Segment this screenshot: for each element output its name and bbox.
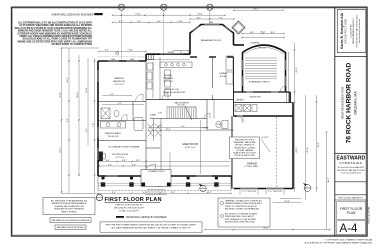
bottom-center right note box with warnings [218,198,270,227]
drawing title: FIRST FLOOR PLAN [96,194,161,203]
svg-text:ALL STAIR DIMENSIONS IN FIELD: ALL STAIR DIMENSIONS IN FIELD ALL RISERS… [111,226,191,229]
svg-text:7'-10": 7'-10" [127,50,133,52]
bottom-left note boxes [43,198,95,230]
svg-text:WEST HARWICH MA 02671: WEST HARWICH MA 02671 [352,17,355,43]
svg-text:15'-0": 15'-0" [197,13,203,15]
svg-text:COVERED PORCH: COVERED PORCH [148,171,165,173]
svg-text:16' CLG: 16' CLG [259,48,266,50]
EXTERIOR WALLS [98,25,293,189]
svg-text:3: 3 [203,187,204,189]
svg-text:ORLEANS, MA: ORLEANS, MA [354,91,358,115]
top-left notes paragraph [15,22,93,47]
svg-text:DINING: DINING [219,73,227,75]
svg-text:HELP THE FIRST THREE RISERS DO: HELP THE FIRST THREE RISERS DOWN FROM SE… [106,224,197,227]
svg-text:KITCHEN: KITCHEN [163,78,173,80]
svg-text:STATE BUILDING CODE LATEST: STATE BUILDING CODE LATEST [225,215,255,218]
plot stamp vertical text right of title block [369,206,371,224]
svg-text:e-mail eastward@c4.net: e-mail eastward@c4.net [341,171,362,174]
svg-text:9'-5": 9'-5" [112,192,116,194]
svg-text:SMOKE AND CO DETECTORS PER COD: SMOKE AND CO DETECTORS PER CODE VERIFY A… [18,40,93,43]
svg-text:TOTAL 3 331 SQ FT: TOTAL 3 331 SQ FT [119,210,140,213]
garage note box [230,137,260,159]
kitchen top wall [145,54,147,61]
svg-text:21'-4": 21'-4" [60,147,62,153]
porch railings [98,182,231,184]
svg-text:GLAZING SEE SCHEDULE FOR: GLAZING SEE SCHEDULE FOR [54,205,84,208]
wall from nook to porch [234,44,245,46]
svg-text:6'-8": 6'-8" [157,21,161,23]
top dims [234,9,283,11]
dim text scatter [60,8,320,229]
svg-text:NO CHANGE IN WORK THIS AREA: NO CHANGE IN WORK THIS AREA [109,145,140,148]
date row [335,195,367,200]
svg-text:IN FIELD PRIOR TO CONSTRUCTION: IN FIELD PRIOR TO CONSTRUCTION [52,44,93,46]
chimney diamond [232,21,245,34]
svg-text:44'-0": 44'-0" [60,92,62,98]
svg-text:12'-0": 12'-0" [86,87,88,93]
svg-text:PRIOR TO CONSTRUCTION NOTIFY: PRIOR TO CONSTRUCTION NOTIFY [225,206,258,208]
svg-text:PH 508 430 0277 FAX 508 430 2: PH 508 430 0277 FAX 508 430 2075 [355,14,358,48]
door swings [121,86,286,176]
svg-text:24'-6": 24'-6" [263,228,269,230]
svg-text:7'-6": 7'-6" [93,123,95,127]
svg-text:6'-0": 6'-0" [108,164,112,166]
svg-text:FIRST FLOOR 2146 SQ FT: FIRST FLOOR 2146 SQ FT [116,205,144,207]
svg-text:FILE 1/21/05 KBK REV 2: FILE 1/21/05 KBK REV 2 [339,197,364,199]
kitchen window bay [147,54,154,59]
svg-text:8'-2": 8'-2" [67,118,69,122]
svg-text:GWB AT ALL WALLS AND: GWB AT ALL WALLS AND [233,141,256,144]
top-left shear wall legend [51,13,102,16]
svg-text:LAUNDRY: LAUNDRY [236,99,245,102]
svg-text:14'-6": 14'-6" [67,77,69,83]
svg-text:SLAB SLOPE TO DOORS: SLAB SLOPE TO DOORS [233,152,256,155]
svg-text:EXTERIOR DOORS AND WINDOWS BY: EXTERIOR DOORS AND WINDOWS BY ANDERSEN S… [18,32,93,35]
svg-text:9 FT CLG: 9 FT CLG [115,84,124,86]
svg-text:SIZES AND ROUGH OPENINGS: SIZES AND ROUGH OPENINGS [54,208,84,211]
dimension ticks [61,9,331,230]
laundry fixtures [235,105,277,189]
EASTWARD COMPANIES box [335,154,367,182]
bottom dims [205,229,330,231]
grid drop lines [122,10,210,61]
svg-text:8'-0": 8'-0" [271,32,275,34]
svg-text:4" CONC SLAB: 4" CONC SLAB [244,165,258,168]
svg-text:ARCHITECT OF ANY DISCREPANCIES: ARCHITECT OF ANY DISCREPANCIES [225,208,260,211]
dimension chains [62,10,331,229]
svg-text:25'-8": 25'-8" [307,147,309,153]
svg-text:9'-5": 9'-5" [171,192,175,194]
svg-text:23'-4": 23'-4" [296,147,298,153]
svg-text:SCREENS: SCREENS [251,43,260,45]
svg-text:SITTING ROOM: SITTING ROOM [112,154,128,156]
svg-text:EDITION AND ALL LOCAL BYLAWS: EDITION AND ALL LOCAL BYLAWS [225,218,257,221]
garage [234,115,294,117]
svg-text:SHEAR WALL DESIGN BY ENGINEER: SHEAR WALL DESIGN BY ENGINEER [51,13,93,16]
porch arc top [243,45,286,53]
svg-text:© COPYRIGHT 2005 / KAREN B.: © COPYRIGHT 2005 / KAREN B. KEMPTON AIA [324,239,373,242]
svg-text:UP 14 R: UP 14 R [177,105,185,107]
svg-text:SMOKE DETECTORS PER CODE: SMOKE DETECTORS PER CODE [225,222,255,224]
svg-text:16'-0": 16'-0" [260,32,266,34]
bath fixtures [101,108,229,131]
svg-text:ISLAND: ISLAND [164,74,172,77]
master top wall with windows [98,60,146,62]
svg-text:76 ROCK HARBOR ROAD: 76 ROCK HARBOR ROAD [346,62,353,143]
svg-text:6'-4": 6'-4" [86,128,88,132]
roof overhang dashed [98,56,146,58]
porch dim line [62,193,232,195]
svg-text:FOYER: FOYER [202,128,209,130]
svg-text:A VIOLATION OF COPYRIGHT LAW.: A VIOLATION OF COPYRIGHT LAW. KAREN B KE… [305,241,373,244]
svg-text:SEE SHEET A-10 FOR DETAILS: SEE SHEET A-10 FOR DETAILS [57,226,86,229]
garage door edge ticks [240,190,284,195]
svg-text:6'-1": 6'-1" [197,17,201,19]
svg-text:STAIR: STAIR [150,114,156,117]
INTERIOR WALLS [98,57,234,176]
svg-text:8'-2": 8'-2" [105,50,109,52]
svg-text:4'-6": 4'-6" [106,160,110,162]
svg-text:ALL WINDOWS TO BE ANDERSEN 400: ALL WINDOWS TO BE ANDERSEN 400 [51,200,88,203]
svg-text:5'-10": 5'-10" [177,21,183,23]
svg-text:DOOR AT GARAGE: DOOR AT GARAGE [236,149,254,152]
svg-text:9' x 7' OH DOOR: 9' x 7' OH DOOR [268,191,282,193]
svg-text:9 FT CLG: 9 FT CLG [116,157,125,159]
mudroom band [234,91,291,93]
right dims [294,43,296,192]
left dims [61,48,63,193]
title block divider [334,7,336,236]
svg-text:1/2 PLYWOOD SHEATHING AND CEDA: 1/2 PLYWOOD SHEATHING AND CEDAR SHINGLES… [19,24,92,27]
project name block [335,56,367,58]
svg-text:3'-8": 3'-8" [122,160,126,162]
svg-text:3'-1": 3'-1" [118,103,122,105]
svg-text:GREAT ROOM: GREAT ROOM [182,143,198,146]
svg-text:38'-2": 38'-2" [328,177,330,183]
porch hatch (screened porch decking) [245,58,277,79]
svg-text:PITCH 1/8 PER FT MIN: PITCH 1/8 PER FT MIN [234,155,255,157]
svg-text:2: 2 [307,186,308,188]
bottom exterior wall [98,175,232,177]
svg-text:COMPANIES: COMPANIES [339,161,362,165]
svg-text:SERIES WITH HIGH PERFORMANCE: SERIES WITH HIGH PERFORMANCE [52,202,87,205]
svg-text:MASTER: MASTER [114,77,124,80]
svg-text:PDR: PDR [217,124,222,126]
svg-text:TILE FLOOR: TILE FLOOR [107,136,119,138]
svg-text:4'-1 1/2": 4'-1 1/2" [262,137,269,139]
sheet number box: A-4 [337,221,366,235]
svg-text:WOOD FLOOR: WOOD FLOOR [165,89,179,91]
fireplace [99,152,103,162]
svg-text:508 255 1117 FAX 508 255 924: 508 255 1117 FAX 508 255 9243 [337,169,364,172]
room labels [105,39,269,173]
svg-text:A-4: A-4 [340,223,359,235]
svg-text:PLOT 1/21/05 KBK: PLOT 1/21/05 KBK [369,206,371,224]
svg-text:20'-0": 20'-0" [77,92,79,98]
porch side walls [242,52,244,92]
wide bottom note box [100,222,202,232]
svg-text:ARCHITECTURE: ARCHITECTURE [344,18,348,43]
bottom legend shear wall [116,216,167,219]
svg-text:3'-6": 3'-6" [136,160,140,162]
svg-text:24'-2": 24'-2" [253,8,259,10]
grid bubbles on top frame [118,4,212,10]
svg-text:PLAN: PLAN [347,211,356,215]
svg-text:ROOM: ROOM [220,76,227,78]
svg-text:16 FT CLG: 16 FT CLG [185,147,195,149]
svg-text:6'-2": 6'-2" [119,21,123,23]
svg-text:17'-8": 17'-8" [135,13,141,15]
stair treads [167,106,193,120]
svg-text:VERIFY IN FIELD: VERIFY IN FIELD [61,211,78,213]
svg-text:7'-4": 7'-4" [219,17,223,19]
nook opening jambs [190,56,234,58]
second marker at porch left [199,184,207,192]
svg-text:BEDROOM: BEDROOM [113,81,124,83]
svg-text:12'-6": 12'-6" [165,129,170,131]
kitchen counters / fixtures [147,51,233,98]
svg-text:5'-9": 5'-9" [132,164,136,166]
left exterior wall [97,61,99,176]
porch edge [98,190,231,192]
svg-text:SEE SHEET A-9 FOR WINDOW SCHED: SEE SHEET A-9 FOR WINDOW SCHEDULE [51,219,90,222]
svg-text:ALL WORK TO CONFORM TO MASS: ALL WORK TO CONFORM TO MASS [225,213,258,216]
svg-text:5'-6": 5'-6" [137,21,141,23]
svg-text:GREAT ROOM BEYOND: GREAT ROOM BEYOND [163,91,186,94]
svg-text:9'-5": 9'-5" [143,192,147,194]
svg-text:GENERAL CONTRACTOR TO VERIFY A: GENERAL CONTRACTOR TO VERIFY ALL [225,200,262,203]
svg-text:SOLID BLOCKING AT ALL POINT LO: SOLID BLOCKING AT ALL POINT LOADS TO FOU… [23,38,93,41]
svg-text:14'-2": 14'-2" [206,192,211,194]
svg-text:ALL EXTERIOR WALLS TO BE 2x6 C: ALL EXTERIOR WALLS TO BE 2x6 CONSTRUCTIO… [18,22,92,25]
mudroom steps [287,93,291,103]
svg-text:30 Cove Rd Orleans MA 02653: 30 Cove Rd Orleans MA 02653 [338,166,364,169]
svg-text:29'-0": 29'-0" [318,142,320,148]
svg-text:9' x 7' OH DOOR: 9' x 7' OH DOOR [242,191,256,193]
garage diagonal leader [261,139,270,152]
sheet title box: FIRST FLOOR PLAN [337,202,366,220]
svg-text:5'-0": 5'-0" [110,94,114,96]
architect info box [337,10,366,53]
svg-text:SECOND FLOOR 1185 SQ FT: SECOND FLOOR 1185 SQ FT [114,208,145,210]
svg-text:MASTER BATH: MASTER BATH [105,132,121,135]
svg-text:7'-4": 7'-4" [181,126,185,128]
elevation marker circle w/ flag [303,183,311,191]
svg-text:kkemptonaia@comcast.net: kkemptonaia@comcast.net [358,18,361,43]
svg-text:WALLS TO BE 2x4 STUDS AT 16 OC: WALLS TO BE 2x4 STUDS AT 16 OC UNLESS NO… [15,27,93,30]
right outer dim line [288,52,327,230]
svg-text:SHEAR WALL DESIGN BY ENGINEER: SHEAR WALL DESIGN BY ENGINEER [126,216,167,219]
svg-text:NEW RESIDENCE FOR: NEW RESIDENCE FOR [341,86,345,119]
svg-text:WINDOW AND DOOR HEADERS TO BE: WINDOW AND DOOR HEADERS TO BE 2-2x10 UNL… [18,30,93,33]
nook chamfer bay [190,25,234,55]
svg-text:MUDROOM: MUDROOM [250,97,261,99]
svg-text:VERIFY ALL ROUGH OPENINGS WITH: VERIFY ALL ROUGH OPENINGS WITH MANUFACTU… [19,35,92,38]
svg-text:BREAKFAST NOOK: BREAKFAST NOOK [201,39,221,42]
svg-text:9 FT CLG: 9 FT CLG [164,81,173,83]
circle marker on left top dim [116,52,119,55]
svg-text:15'-2": 15'-2" [296,67,298,73]
laundry band divider [234,102,294,104]
bottom porch columns [101,177,219,187]
svg-text:SCREENED PORCH: SCREENED PORCH [249,82,270,84]
svg-text:23'-8": 23'-8" [284,201,290,203]
entry vestibule [141,170,171,195]
svg-text:Karen B. Kempton AIA: Karen B. Kempton AIA [340,12,344,49]
svg-text:8'-0": 8'-0" [250,32,254,34]
svg-text:DIMENSIONS AND CONDITIONS IN F: DIMENSIONS AND CONDITIONS IN FIELD [225,202,263,205]
